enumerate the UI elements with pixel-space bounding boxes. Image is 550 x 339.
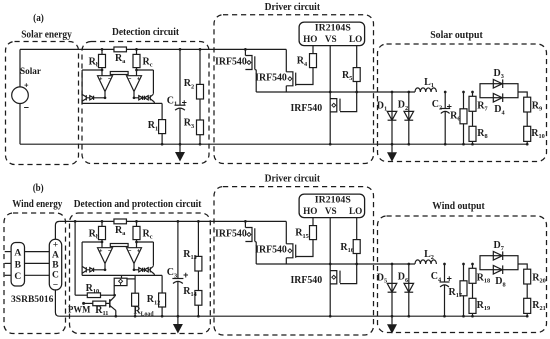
svg-text:IR2104S: IR2104S bbox=[315, 22, 351, 32]
svg-text:IRF540: IRF540 bbox=[215, 229, 247, 240]
svg-text:+: + bbox=[53, 241, 58, 251]
svg-text:Detection circuit: Detection circuit bbox=[112, 27, 179, 38]
svg-text:+: + bbox=[183, 270, 188, 280]
svg-text:A: A bbox=[52, 251, 59, 261]
svg-text:B: B bbox=[15, 260, 22, 270]
svg-text:(b): (b) bbox=[33, 183, 44, 194]
svg-text:3SRB5016: 3SRB5016 bbox=[11, 294, 53, 305]
svg-text:PWM: PWM bbox=[68, 306, 91, 316]
svg-text:Solar output: Solar output bbox=[430, 30, 483, 41]
svg-text:Wind energy: Wind energy bbox=[12, 199, 63, 210]
svg-text:IRF540: IRF540 bbox=[255, 73, 287, 84]
svg-text:−: − bbox=[24, 103, 29, 113]
svg-text:Driver circuit: Driver circuit bbox=[265, 173, 321, 184]
svg-text:VS: VS bbox=[325, 34, 337, 44]
svg-text:Detection and protection circ: Detection and protection circuit bbox=[74, 199, 202, 210]
svg-text:C: C bbox=[52, 270, 59, 280]
svg-text:VS: VS bbox=[325, 206, 337, 216]
svg-text:LO: LO bbox=[349, 34, 362, 44]
svg-text:+: + bbox=[24, 80, 29, 89]
svg-text:IRF540: IRF540 bbox=[215, 57, 247, 68]
svg-text:IRF540: IRF540 bbox=[290, 103, 322, 114]
svg-text:+: + bbox=[182, 98, 187, 108]
svg-text:B: B bbox=[52, 261, 59, 271]
svg-text:Solar energy: Solar energy bbox=[21, 29, 72, 40]
svg-text:A: A bbox=[14, 249, 21, 259]
svg-text:Wind output: Wind output bbox=[432, 201, 485, 212]
svg-text:(a): (a) bbox=[33, 13, 44, 24]
svg-text:IRF540: IRF540 bbox=[290, 275, 322, 286]
svg-text:LO: LO bbox=[349, 206, 362, 216]
svg-text:IR2104S: IR2104S bbox=[315, 194, 351, 204]
svg-text:C: C bbox=[14, 272, 21, 282]
svg-text:+: + bbox=[447, 274, 452, 284]
svg-text:HO: HO bbox=[303, 206, 317, 216]
svg-text:−: − bbox=[53, 280, 58, 290]
svg-text:+: + bbox=[447, 102, 452, 112]
svg-text:IRF540: IRF540 bbox=[255, 245, 287, 256]
svg-text:HO: HO bbox=[303, 34, 317, 44]
svg-text:Solar: Solar bbox=[20, 66, 42, 77]
svg-text:Driver circuit: Driver circuit bbox=[265, 2, 321, 13]
